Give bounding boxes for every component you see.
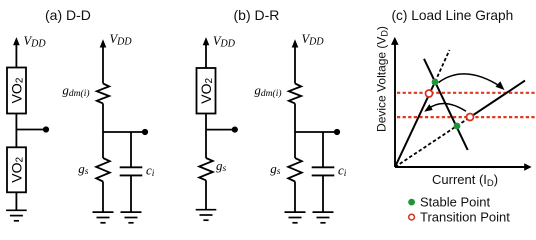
- node dot (a) output: [43, 126, 49, 132]
- node dot (b) output: [232, 127, 238, 133]
- transition point lower: [467, 114, 474, 121]
- supply VDD arrow (a) left: [13, 37, 20, 67]
- node wire (a) model: [103, 131, 143, 133]
- wire capacitor to ground (a): [130, 175, 132, 212]
- node dot (b) model: [334, 129, 340, 135]
- transition point upper: [426, 90, 433, 97]
- VO2 device box (a) bottom: [7, 147, 26, 192]
- VO2 device box (a) top: [7, 68, 26, 114]
- transition arc arrow left: [424, 104, 466, 112]
- insulating branch solid: [395, 82, 435, 167]
- wire capacitor to ground (b) model: [322, 175, 324, 212]
- node dot (a) model: [142, 129, 148, 135]
- wire resistor to node (a) model: [102, 103, 104, 158]
- capacitor ci (a): [120, 167, 143, 175]
- legend stable point marker: [408, 199, 415, 206]
- ground (a) left: [6, 210, 27, 221]
- metallic branch dashed part: [395, 117, 470, 167]
- wire capacitor branch (a): [130, 132, 132, 167]
- wire gs to ground (b) model: [294, 182, 296, 213]
- node wire (b) model: [295, 131, 335, 133]
- threshold red dashed line upper: [397, 92, 536, 94]
- wire box to resistor (b): [205, 114, 207, 159]
- svg-text:(b) D-R: (b) D-R: [234, 7, 280, 23]
- y axis: [391, 37, 399, 167]
- supply VDD arrow (a) model: [100, 39, 107, 83]
- insulating branch dashed extension: [435, 50, 450, 82]
- threshold red dashed line lower: [397, 116, 536, 118]
- node wire (b) output: [206, 129, 232, 131]
- stable point upper: [432, 79, 439, 86]
- resistor gs (a) model: [96, 158, 110, 182]
- ground under gs (a): [93, 212, 114, 223]
- metallic branch solid: [470, 81, 525, 118]
- VO2 device box (b): [197, 68, 216, 114]
- wire between boxes (a): [15, 114, 17, 148]
- wire capacitor branch (b): [322, 132, 324, 167]
- resistor gdm(i) (a): [97, 84, 109, 104]
- wire resistor to node (b) model: [294, 103, 296, 158]
- ground (b) left: [196, 210, 217, 221]
- transition arc arrow right: [439, 74, 505, 90]
- svg-text:Transition Point: Transition Point: [420, 210, 510, 225]
- wire gs to ground (a): [102, 182, 104, 213]
- ground under ci (a): [121, 212, 142, 223]
- resistor gs (b) model: [288, 158, 302, 182]
- NDR segment: [424, 59, 468, 150]
- resistor gdm(i) (b): [289, 84, 301, 104]
- supply VDD arrow (b) left: [203, 37, 210, 68]
- svg-text:Device Voltage (VD): Device Voltage (VD): [374, 26, 389, 132]
- stable point lower: [454, 123, 461, 130]
- ground under gs (b) model: [285, 212, 306, 223]
- resistor gs (b) left: [199, 158, 213, 180]
- wire to ground (b) left: [205, 180, 207, 209]
- svg-text:(c) Load Line Graph: (c) Load Line Graph: [392, 8, 514, 23]
- node wire (a) output: [16, 129, 44, 131]
- x axis: [395, 163, 532, 170]
- wire to ground (a) left: [15, 192, 17, 210]
- ground under ci (b) model: [313, 212, 334, 223]
- capacitor ci (b): [312, 167, 335, 175]
- legend transition point marker: [409, 214, 415, 220]
- supply VDD arrow (b) model: [292, 39, 299, 83]
- svg-text:Stable Point: Stable Point: [420, 195, 490, 210]
- svg-text:(a) D-D: (a) D-D: [45, 7, 91, 23]
